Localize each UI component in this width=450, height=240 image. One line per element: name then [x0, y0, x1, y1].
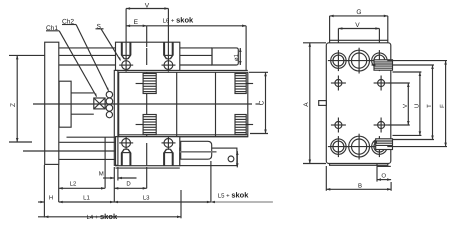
piston rod hole top-center	[346, 48, 372, 74]
dimension V right column	[407, 83, 410, 125]
screw hole top 1	[119, 42, 133, 71]
dimension L4+skok	[38, 190, 181, 218]
bottom rod end piece	[181, 141, 212, 159]
cross hole top-right	[374, 76, 389, 91]
cross hole top-left	[331, 76, 346, 91]
svg-text:T: T	[426, 104, 433, 108]
dimension D	[114, 167, 146, 190]
piston rod right	[180, 48, 239, 65]
guide rod hole top-left	[328, 50, 349, 71]
guide rod hole top-right	[369, 50, 390, 71]
port bushing bottom-right	[235, 115, 253, 135]
dimension M	[103, 167, 137, 181]
screw hole bottom 2	[162, 137, 176, 166]
front plate	[326, 43, 391, 164]
tab bottom-right	[376, 164, 378, 167]
dimension V top	[126, 7, 168, 58]
dimension F	[444, 61, 447, 147]
svg-text:Z: Z	[10, 103, 17, 107]
svg-text:M: M	[99, 170, 104, 177]
svg-text:A: A	[303, 102, 310, 107]
svg-text:V: V	[402, 104, 409, 108]
svg-text:L4 + skok: L4 + skok	[87, 212, 118, 221]
svg-text:V: V	[355, 22, 360, 29]
svg-text:V: V	[145, 3, 150, 10]
tongue hole	[228, 156, 234, 162]
dimension L2	[59, 138, 105, 190]
dimension L3	[114, 161, 211, 203]
body rail	[119, 72, 248, 136]
lower rod	[59, 141, 115, 143]
extension lines right columns	[389, 82, 410, 84]
piston internal edges	[176, 72, 178, 136]
cross hole bottom-left	[331, 118, 346, 133]
dimension T	[431, 65, 434, 140]
flange plate	[45, 42, 59, 164]
dimension U	[419, 72, 422, 135]
dimension G	[330, 15, 388, 40]
rear block	[59, 81, 71, 127]
svg-text:D: D	[126, 180, 131, 187]
port bushing bottom-left	[136, 115, 157, 135]
piston rod hole bottom-center	[346, 134, 372, 160]
svg-text:F: F	[439, 104, 446, 108]
dimension Z	[9, 55, 45, 142]
body behind plate	[330, 40, 388, 165]
dimension L1	[59, 181, 115, 204]
slide web	[114, 70, 118, 165]
svg-text:L2: L2	[70, 180, 77, 187]
rod dia dimension	[239, 48, 242, 65]
svg-text:L3: L3	[143, 194, 150, 201]
choke screw circles	[106, 91, 112, 97]
dimension E	[126, 25, 147, 48]
dimension L5+skok	[211, 201, 273, 204]
svg-text:L6 + skok: L6 + skok	[163, 16, 194, 25]
leader S	[101, 29, 120, 61]
cross hole bottom-right	[374, 118, 389, 133]
dimension V right view top	[338, 27, 379, 42]
screw hole top 2	[162, 42, 176, 71]
port bushing top-left	[136, 74, 157, 94]
upper rod	[59, 47, 115, 49]
svg-text:H: H	[49, 194, 53, 201]
screw hole bottom 1	[119, 137, 133, 166]
middle rod	[71, 92, 94, 94]
main centerline	[33, 103, 252, 105]
svg-text:U: U	[413, 104, 420, 108]
port plug top hatch	[371, 60, 393, 70]
dimension O right view	[377, 166, 391, 181]
left protrusion	[319, 101, 327, 106]
dimension H	[38, 165, 59, 218]
svg-text:ø1: ø1	[233, 53, 240, 61]
valve body cross box	[94, 98, 105, 109]
dimension B	[326, 166, 391, 191]
dimension A	[303, 43, 326, 164]
tongue height dimension	[236, 151, 239, 167]
svg-text:L5 + skok: L5 + skok	[218, 190, 249, 199]
bottom tongue	[180, 148, 237, 166]
bottom plate	[116, 137, 180, 166]
svg-text:O: O	[381, 172, 386, 179]
port centerline vertical	[146, 72, 148, 136]
dimension L6+skok	[147, 25, 246, 71]
port bushing top-right	[235, 74, 253, 94]
svg-text:L1: L1	[83, 195, 90, 202]
svg-text:E: E	[134, 19, 139, 26]
guide rod hole bottom-right	[369, 136, 390, 157]
top plate	[116, 42, 180, 70]
guide rod hole bottom-left	[328, 136, 349, 157]
leader Ch2	[76, 25, 108, 91]
port plug bottom hatch	[372, 139, 392, 150]
svg-text:G: G	[356, 9, 361, 16]
svg-text:C: C	[258, 100, 265, 105]
svg-text:B: B	[358, 183, 362, 190]
dimension C	[249, 72, 268, 133]
leader Ch1	[59, 31, 96, 97]
